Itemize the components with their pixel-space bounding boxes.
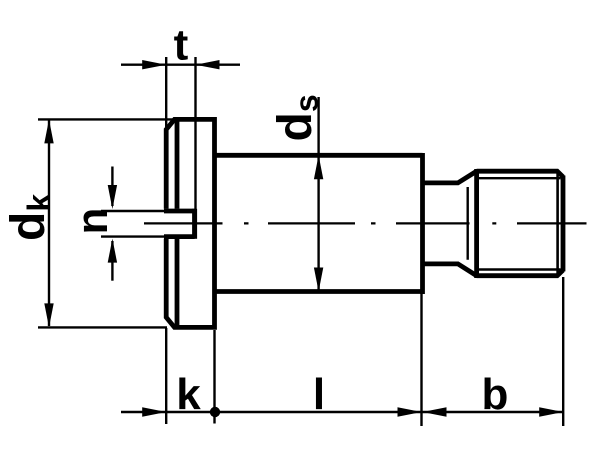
screw body outline: [164, 119, 563, 327]
dimension lines: [49, 65, 563, 412]
b right ext: [562, 277, 564, 426]
svg-text:t: t: [174, 21, 189, 70]
k-l junction dot: [210, 407, 220, 417]
n bottom ext: [101, 235, 164, 237]
n dimension line upper: [111, 167, 113, 207]
n dimension line lower: [111, 241, 113, 281]
neck top: [423, 171, 477, 183]
k left ext below head: [165, 328, 167, 424]
t arrow right (points left): [196, 60, 220, 69]
dk arrow top (points up): [44, 119, 53, 143]
dimension extension lines (thin): [38, 57, 563, 426]
b arrow right (points right at 563.2): [539, 407, 563, 416]
thread chamfer start line: [556, 174, 559, 274]
thread OD top: [477, 171, 563, 177]
n arrow bottom (points up): [108, 239, 117, 263]
dk top ext: [38, 118, 175, 120]
head chamfer tangent line upper: [175, 121, 180, 209]
thread OD bottom: [477, 270, 563, 276]
svg-text:k: k: [176, 370, 201, 419]
head chamfer tangent line lower: [175, 239, 180, 326]
ds arrow bottom (points down): [314, 268, 323, 292]
shank right face: [420, 153, 425, 294]
t dimension line: [121, 63, 240, 65]
neck groove line: [467, 187, 469, 260]
t arrow left (points right): [142, 60, 166, 69]
dk dimension line: [48, 120, 50, 326]
n arrow top (points down): [108, 185, 117, 209]
svg-text:n: n: [68, 208, 117, 235]
head outline top part: [166, 119, 214, 327]
svg-text:l: l: [313, 370, 325, 419]
l arrow (points right at 421.5): [398, 407, 422, 416]
l right / b left ext: [420, 294, 422, 426]
shank top: [215, 153, 423, 158]
centerline: [144, 222, 587, 224]
b arrow left (points left at 422.5): [423, 407, 447, 416]
thread minor diameter lines: [468, 178, 561, 269]
neck bottom: [423, 264, 477, 276]
k arrow (points right at 166): [142, 407, 166, 416]
bottom dimension line b: [423, 411, 564, 413]
slot top edge: [164, 209, 195, 214]
arrowheads: [44, 60, 563, 417]
t left ext / head face upper: [165, 57, 167, 130]
dk arrow bottom (points down): [44, 303, 53, 327]
thread start edge: [474, 169, 479, 278]
dk bottom ext: [38, 326, 167, 328]
shank bottom: [215, 289, 423, 294]
thread end face: [561, 176, 566, 272]
ds arrow top (points up): [314, 155, 323, 179]
slot bottom bar: [192, 209, 197, 239]
n top ext: [101, 210, 164, 212]
svg-text:b: b: [482, 370, 509, 419]
k right / l left ext below head: [213, 330, 215, 424]
ds dimension line: [317, 97, 319, 290]
slot bottom edge: [164, 234, 195, 239]
t right ext through head to slot: [194, 57, 196, 209]
bottom dimension line k+l: [121, 411, 422, 413]
